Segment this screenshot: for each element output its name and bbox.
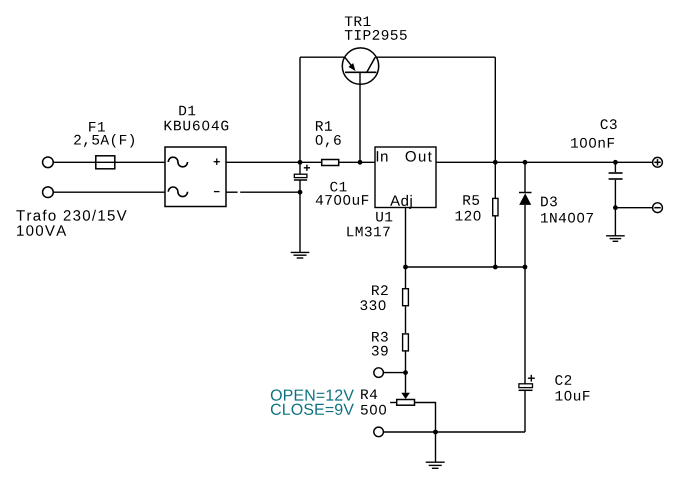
label Out bbox=[406, 151, 432, 162]
capacitor C3 top lead bbox=[614, 162, 616, 172]
label LM317 bbox=[347, 227, 389, 237]
junction C1 top bbox=[298, 160, 303, 165]
wire input bottom to bridge bbox=[53, 191, 165, 193]
wire C1 to ground bbox=[299, 192, 301, 252]
wire LM317 Out to output rail bbox=[436, 161, 653, 163]
capacitor C2 bottom lead bbox=[524, 391, 526, 432]
diode D3 triangle bbox=[519, 193, 531, 205]
capacitor C1 bottom lead bbox=[299, 181, 301, 193]
label R3 bbox=[372, 332, 388, 342]
label 1N4007 bbox=[541, 213, 593, 223]
label 0,6 bbox=[316, 135, 341, 147]
label C3 bbox=[601, 119, 617, 129]
wire sense terminal to node bbox=[384, 372, 406, 374]
junction bottom ground bbox=[433, 430, 438, 435]
potentiometer R4 wiper arrow bbox=[401, 393, 410, 399]
label 330 bbox=[360, 300, 385, 310]
junction C1 bottom bbox=[298, 190, 303, 195]
terminal ground bbox=[374, 427, 384, 437]
regulator U1 LM317 box bbox=[375, 147, 436, 208]
wire bottom line bbox=[384, 431, 525, 433]
label KBU604G bbox=[165, 121, 229, 131]
wire bridge plus to R1 bbox=[226, 161, 321, 163]
capacitor C3 plates bbox=[609, 173, 623, 179]
capacitor C2 plus sign bbox=[528, 375, 535, 382]
ground under C3 bbox=[606, 236, 625, 242]
resistor R3 body bbox=[403, 334, 409, 351]
resistor R2 top lead bbox=[405, 267, 407, 288]
label 100nF bbox=[571, 138, 614, 148]
label TIP2955 bbox=[345, 30, 407, 40]
fuse F1 bbox=[96, 156, 115, 169]
label D3 bbox=[541, 197, 557, 207]
label 100VA bbox=[17, 225, 66, 236]
potentiometer R4 left stub bbox=[390, 402, 397, 404]
capacitor C3 bottom lead bbox=[614, 180, 616, 208]
label TR1 bbox=[345, 16, 371, 26]
wire bridge minus to C1 bottom node bbox=[226, 191, 238, 193]
resistor R2 body bbox=[403, 289, 409, 306]
wire left vertical to rail bbox=[299, 57, 301, 162]
wire minus rail bbox=[615, 207, 652, 209]
label 120 bbox=[456, 211, 481, 221]
terminal sense bbox=[374, 368, 384, 378]
wire R2 to R3 bbox=[405, 307, 407, 334]
capacitor C1 plus sign bbox=[304, 165, 310, 171]
label R1 bbox=[316, 121, 332, 131]
terminal output minus sign bbox=[654, 207, 660, 209]
label 4700uF bbox=[316, 195, 368, 205]
junction R5 rail bbox=[493, 160, 498, 165]
wire node to wiper arrow bbox=[405, 373, 407, 393]
capacitor C2 plates bbox=[519, 384, 533, 388]
capacitor C1 bottom plate bbox=[294, 179, 307, 181]
terminal output plus bbox=[653, 157, 663, 167]
label 10uF bbox=[556, 391, 590, 401]
junction D3 rail bbox=[523, 160, 528, 165]
terminal output plus sign bbox=[654, 159, 660, 165]
junction adj D3 bbox=[523, 265, 528, 270]
terminal input top bbox=[43, 157, 54, 168]
label U1 bbox=[376, 212, 392, 222]
capacitor C1 plates bbox=[294, 174, 307, 177]
bridge AC symbol top bbox=[168, 157, 187, 167]
wire R3 to pot node bbox=[405, 352, 407, 373]
diode D3 top lead bbox=[524, 162, 526, 192]
label R4 bbox=[361, 389, 377, 399]
resistor R5 bottom lead bbox=[494, 216, 496, 267]
junction sense node bbox=[403, 370, 408, 375]
capacitor C2 bottom plate bbox=[519, 389, 533, 391]
transistor TR1 collector diagonal bbox=[367, 57, 375, 72]
label C1 bbox=[330, 182, 346, 192]
transistor TR1 emitter arrow bbox=[348, 63, 355, 71]
potentiometer R4 body bbox=[397, 400, 415, 406]
resistor R1 body bbox=[322, 160, 339, 166]
wire C3 to ground bbox=[614, 208, 616, 236]
label Adj bbox=[390, 195, 412, 209]
resistor R5 top lead bbox=[494, 162, 496, 198]
diode D3 cathode bar bbox=[519, 192, 532, 194]
wire bridge minus segment 2 bbox=[240, 191, 300, 193]
transistor TR1 base stem bbox=[359, 72, 361, 162]
label In bbox=[377, 151, 388, 161]
transistor TR1 emitter diagonal bbox=[345, 57, 353, 67]
wire right vertical to rail bbox=[494, 57, 496, 162]
wire R1 to LM317 In bbox=[340, 161, 376, 163]
label 2,5A(F) bbox=[74, 134, 134, 148]
wire LM317 Adj stem bbox=[405, 208, 407, 268]
wire TR1 collector right bbox=[375, 56, 495, 58]
wire adj horizontal line bbox=[406, 266, 526, 268]
capacitor C1 top lead bbox=[299, 162, 301, 174]
wire R4 right to corner bbox=[415, 403, 436, 433]
bridge rectifier D1 box bbox=[165, 147, 226, 207]
junction adj R5 bbox=[493, 265, 498, 270]
junction C3 rail bbox=[613, 160, 618, 165]
ground bottom bbox=[426, 462, 445, 468]
bridge plus sign bbox=[214, 159, 220, 165]
label R2 bbox=[372, 285, 388, 295]
resistor R5 body bbox=[493, 198, 498, 215]
label C2 bbox=[555, 375, 571, 385]
junction base rail bbox=[358, 160, 363, 165]
label Trafo 230/15V bbox=[16, 210, 126, 221]
wire input top to bridge bbox=[53, 161, 165, 163]
label CLOSE=9V bbox=[271, 404, 354, 415]
junction C3 minus bbox=[613, 205, 618, 210]
terminal output minus bbox=[653, 203, 663, 213]
label 39 bbox=[372, 346, 388, 356]
transistor TR1 circle bbox=[342, 48, 378, 84]
capacitor C2 top lead bbox=[524, 267, 526, 384]
bridge AC symbol bottom bbox=[168, 187, 187, 197]
label D1 bbox=[179, 106, 195, 116]
bridge minus sign bbox=[214, 191, 220, 193]
label R5 bbox=[463, 195, 479, 205]
wire TR1 emitter left bbox=[300, 56, 345, 58]
wire ground stem bbox=[435, 432, 437, 462]
ground under C1 bbox=[291, 252, 310, 258]
label OPEN=12V bbox=[271, 389, 354, 400]
label F1 bbox=[89, 122, 105, 132]
label 500 bbox=[361, 405, 386, 415]
junction adj left bbox=[403, 265, 408, 270]
transistor TR1 base bar bbox=[345, 71, 376, 73]
terminal input bottom bbox=[43, 187, 54, 198]
diode D3 bottom lead bbox=[524, 205, 526, 267]
